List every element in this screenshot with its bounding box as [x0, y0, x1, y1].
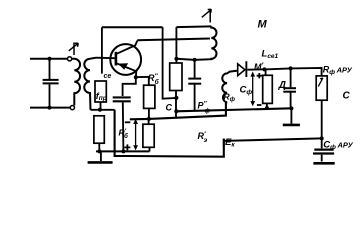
wire fpr stub [100, 102, 102, 110]
svg-text:Д: Д [278, 80, 286, 91]
node rail P right [289, 106, 293, 110]
diode D1 [238, 61, 265, 77]
inductor T2 primary [176, 26, 216, 60]
wire R''b bottom stub [148, 108, 150, 119]
tuning arrow T2 [202, 9, 212, 22]
wire Ek to AGC junction [224, 138, 322, 141]
capacitor Cf ARU [313, 138, 335, 163]
wire input tank bottom [30, 107, 70, 109]
box fpr filter [95, 81, 106, 102]
node V2 top [174, 57, 178, 61]
wire rail A [96, 150, 150, 152]
svg-text:C: C [166, 103, 173, 113]
ground G2 [283, 108, 300, 125]
terminal Ek tick [223, 139, 225, 147]
node rail A left [98, 149, 102, 153]
wire Ce down to rail A [122, 102, 125, 151]
node fpr junction [98, 108, 102, 112]
node D junction [289, 66, 293, 70]
node pot bottom [265, 106, 269, 110]
wire pot bottom stub [266, 103, 268, 108]
wire rail Q [130, 102, 226, 119]
wire input tank top [30, 58, 67, 60]
wire R'b top stub [148, 119, 150, 124]
wire W1 secondary-bottom down [115, 110, 224, 157]
node C2 top [193, 58, 197, 62]
terminal circle bottom [70, 106, 74, 110]
wire R'' stubs [175, 91, 177, 118]
wire collector to coil tap [137, 39, 210, 41]
wire left feedback vertical [101, 27, 103, 73]
node tank bottom junction [48, 106, 52, 110]
sign minus R'b [125, 121, 131, 123]
ground G1 [88, 151, 113, 162]
transistor VT1 [110, 41, 141, 78]
node rail P start [174, 109, 178, 113]
capacitor C2 [188, 60, 201, 110]
capacitor tank C1 [43, 59, 59, 108]
terminal circle top [68, 57, 72, 61]
sign plus Cf [257, 73, 262, 78]
node rail A cap [121, 149, 125, 153]
tuning arrow T1 [69, 43, 78, 56]
wire R'b bottom stub [149, 147, 151, 151]
wire resistor lower stub [98, 143, 100, 151]
wire Rf ARU down [321, 100, 323, 138]
wire top rail right [176, 25, 211, 28]
inductor T1 secondary [84, 58, 96, 110]
capacitor Ce emitter [113, 97, 131, 101]
node AGC junction [320, 136, 324, 140]
wire V1 vertical [163, 27, 177, 98]
svg-text:C: C [343, 91, 351, 102]
svg-text:RфАРУ: RфАРУ [323, 65, 353, 77]
arrow voltage R'b [133, 119, 138, 150]
node V1 join [174, 96, 178, 100]
wire rail P [176, 108, 291, 111]
wire V2 top [175, 27, 177, 63]
capacitor D phones [283, 68, 296, 108]
wire emitter bypass step [123, 77, 136, 96]
wire M' to D junction [264, 68, 290, 69]
node divider junction [147, 117, 151, 121]
node emitter junction [134, 75, 138, 79]
node M' junction [262, 67, 266, 71]
resistor R''b [144, 85, 155, 108]
svg-text:се: се [104, 73, 112, 80]
wire pot top stub [265, 69, 267, 75]
wire top rail left [102, 26, 163, 28]
arrow voltage Cf [250, 72, 255, 107]
inductor T1 primary [72, 59, 80, 106]
node tank top junction [48, 57, 52, 61]
resistor volume pot [263, 75, 273, 103]
svg-text:CфАРУ: CфАРУ [323, 140, 353, 152]
svg-text:М: М [258, 19, 268, 31]
resistor R base lower [94, 116, 104, 143]
base wire [96, 57, 115, 60]
resistor Rf ARU [316, 76, 327, 100]
resistor R'b [143, 124, 154, 147]
wire T1 secondary bottom to junction [91, 109, 115, 111]
inductor T2 secondary [222, 71, 237, 103]
sign plus R'b [124, 144, 130, 150]
wire emitter to R''b [136, 77, 149, 85]
sign minus Cf [257, 104, 262, 106]
resistor R'' mid [170, 63, 182, 91]
wire D junction to Rf ARU [291, 68, 322, 76]
